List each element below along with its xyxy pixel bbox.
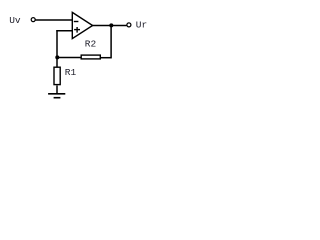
node junction A <box>55 55 59 59</box>
wire feedback right vertical <box>110 26 112 59</box>
wire node A to R2 <box>57 57 81 59</box>
wire op-amp plus input horizontal <box>56 30 72 32</box>
wire R1 to ground <box>56 86 58 94</box>
wire R2 to feedback right vertical <box>101 57 112 59</box>
input terminal Uv <box>31 18 35 22</box>
ground <box>48 94 65 98</box>
svg-text:R1: R1 <box>65 67 77 78</box>
op-amp minus pin <box>74 21 79 23</box>
op-amp plus pin <box>74 27 80 33</box>
wire op-amp output to Ur terminal <box>93 25 127 27</box>
node junction B <box>109 23 113 27</box>
wire Uv terminal to op-amp inverting input <box>35 19 72 21</box>
resistor R1 <box>54 67 60 84</box>
wire feedback left vertical <box>56 30 58 57</box>
svg-text:Uv: Uv <box>9 15 21 26</box>
svg-text:Ur: Ur <box>136 20 147 31</box>
resistor R2 <box>81 55 100 59</box>
wire node A down to R1 <box>56 58 58 68</box>
op-amp U1 <box>72 12 92 38</box>
output terminal Ur <box>127 23 131 27</box>
svg-text:R2: R2 <box>85 38 97 49</box>
